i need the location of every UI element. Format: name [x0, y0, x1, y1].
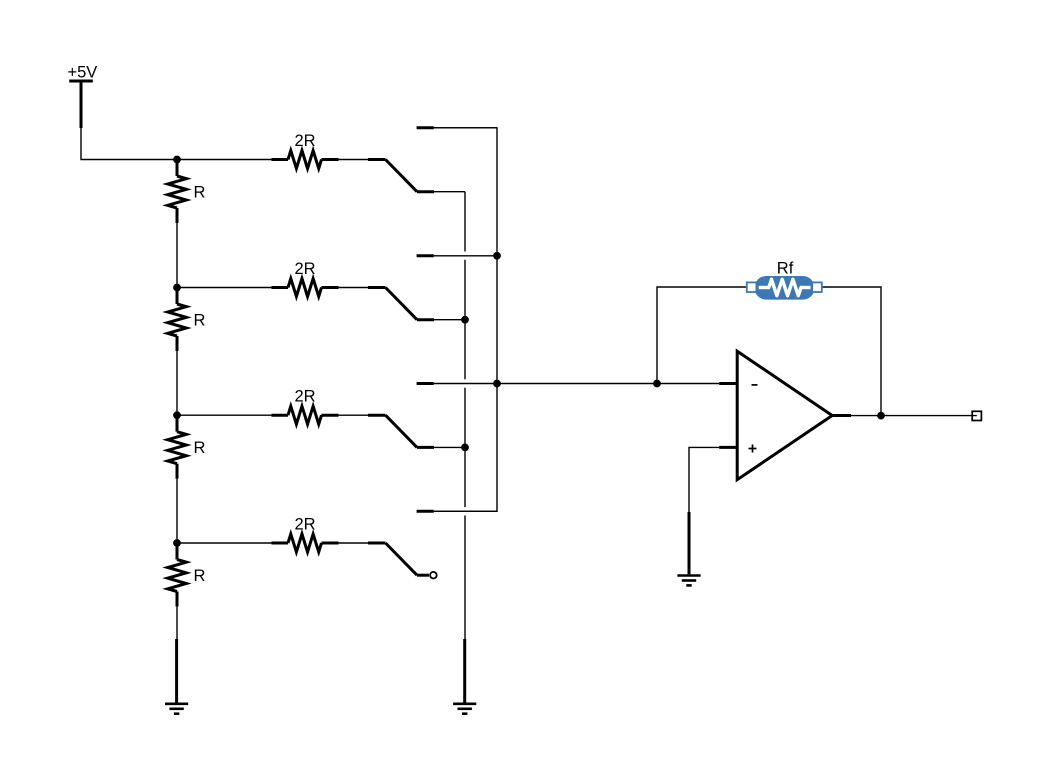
wire Rf to output node [815, 287, 881, 416]
wire ladder link 2 [176, 351, 178, 415]
wire ladder link 1 [176, 223, 178, 288]
wire row1 upper throw to bus B [434, 127, 497, 129]
wire row3 upper throw / summing line to op-amp inverting input [434, 383, 719, 385]
node bus A / row2 lower throw [461, 316, 469, 324]
wire row3 lower throw to bus A [434, 446, 465, 448]
ground (ladder bottom) [165, 639, 188, 714]
ground (bus A bottom) [453, 639, 476, 714]
wire feedback up and to Rf [657, 287, 754, 384]
switch SPDT (bit0 (LSB)) [368, 511, 437, 578]
node bus B / summing line [493, 380, 501, 388]
node row 2 junction dot [173, 284, 181, 292]
wire 2R to switch pole row 2 [339, 287, 369, 289]
wire row 4 node to 2R resistor [177, 542, 272, 544]
svg-text:2R: 2R [295, 388, 316, 406]
resistor 2R (bit0 (LSB)) [272, 515, 339, 552]
wire row 1 node to 2R resistor [177, 159, 272, 161]
node row 3 junction dot [173, 411, 181, 419]
switch SPDT (bit2) [368, 256, 434, 320]
switch SPDT (bit3 (MSB)) [368, 128, 434, 192]
ground (op-amp + input) [677, 512, 700, 585]
resistor Rf (selected, highlighted blue) [747, 260, 822, 300]
op-amp U1 [719, 351, 851, 480]
power rail +5V [68, 64, 98, 129]
wire +5V to ladder top node [81, 128, 177, 160]
resistor 2R (bit3 (MSB)) [272, 132, 339, 169]
wire 2R to switch pole row 1 [339, 159, 369, 161]
svg-text:R: R [194, 567, 206, 585]
node summing junction (feedback tap) [653, 380, 661, 388]
wire row4 upper throw to bus B [434, 510, 497, 512]
wire row2 upper throw to bus B [434, 255, 497, 257]
node output [877, 412, 885, 420]
wire bus A vertical (to ground), with crossover gaps [464, 192, 466, 639]
wire op-amp + input to ground [689, 447, 719, 512]
resistor R (ladder leg 1) [168, 161, 206, 224]
wire 2R to switch pole row 3 [339, 414, 369, 416]
wire ladder link 3 [176, 479, 178, 543]
node row 4 junction dot [173, 539, 181, 547]
svg-text:2R: 2R [295, 260, 316, 278]
node bus B / row2 upper throw [493, 252, 501, 260]
resistor 2R (bit1) [272, 388, 339, 425]
wire row 3 node to 2R resistor [177, 414, 272, 416]
node bus A / row3 lower throw [461, 444, 469, 452]
svg-text:R: R [194, 312, 206, 330]
resistor 2R (bit2) [272, 260, 339, 297]
svg-text:Rf: Rf [777, 260, 794, 278]
svg-text:+5V: +5V [68, 64, 98, 82]
wire op-amp output [851, 415, 977, 417]
svg-text:2R: 2R [295, 515, 316, 533]
wire bus B vertical [434, 128, 497, 512]
switch SPDT (bit1) [368, 384, 434, 448]
svg-text:2R: 2R [295, 132, 316, 150]
wire row 2 node to 2R resistor [177, 287, 272, 289]
resistor R (ladder leg 3) [168, 416, 206, 479]
wire ladder bottom to ground [176, 607, 178, 640]
resistor R (ladder leg 4) [168, 544, 206, 607]
node row 1 junction dot [173, 156, 181, 164]
svg-text:R: R [194, 439, 206, 457]
terminal output flag [972, 411, 981, 420]
svg-text:R: R [194, 184, 206, 202]
wire 2R to switch pole row 4 [339, 542, 369, 544]
wire row1 lower throw to bus A [434, 191, 465, 193]
resistor R (ladder leg 2) [168, 289, 206, 352]
wire row2 lower throw to bus A [434, 319, 465, 321]
